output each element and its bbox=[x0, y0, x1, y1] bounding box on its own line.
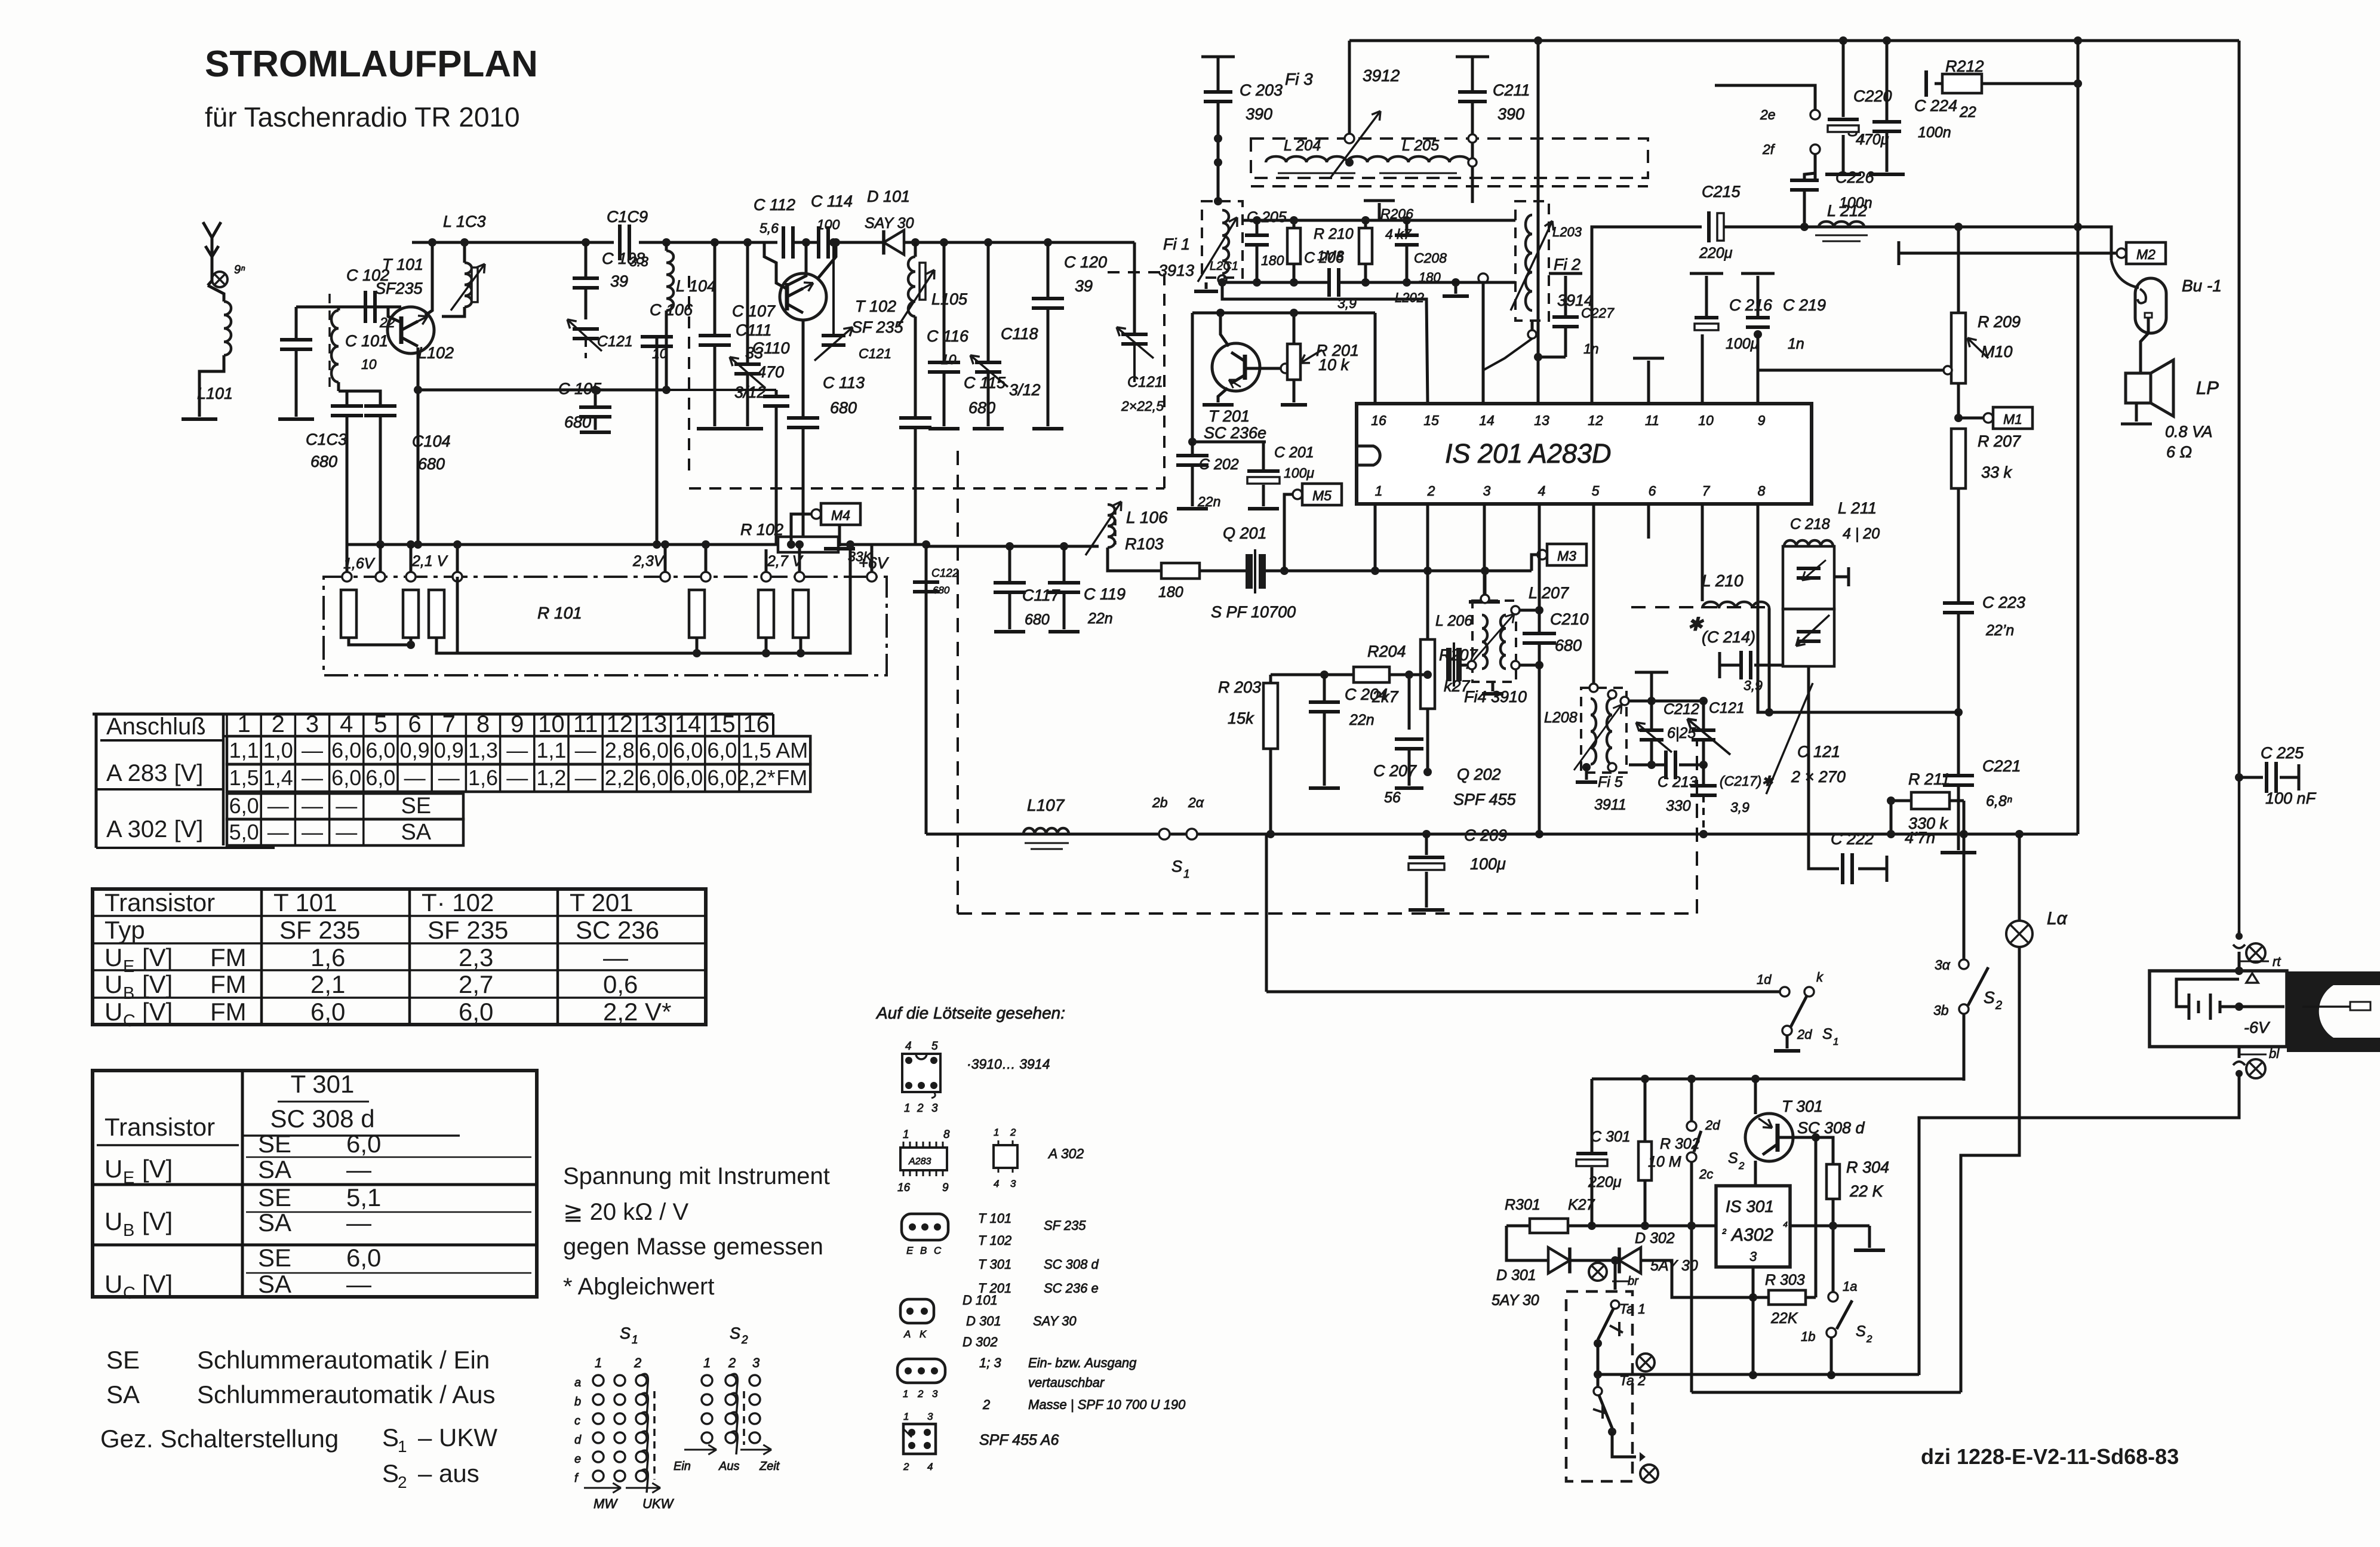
svg-text:C: C bbox=[934, 1245, 942, 1256]
capacitor C201 electrolytic bbox=[1247, 469, 1280, 473]
svg-text:100: 100 bbox=[817, 217, 840, 232]
resistor R212 bbox=[1942, 74, 1982, 93]
svg-text:1: 1 bbox=[994, 1127, 999, 1138]
svg-text:1: 1 bbox=[1375, 483, 1383, 499]
svg-text:U: U bbox=[104, 1207, 122, 1235]
battery connector bl bbox=[2238, 1047, 2241, 1058]
inner filter rails bbox=[1243, 219, 1515, 222]
trimmer C212 bbox=[1650, 701, 1653, 730]
wire top bus bbox=[1349, 39, 2239, 42]
svg-text:SC 236: SC 236 bbox=[576, 916, 659, 944]
svg-text:2: 2 bbox=[1738, 1160, 1745, 1171]
resistor R102 in series bbox=[778, 537, 838, 552]
wire R301 to wireA bbox=[1591, 1167, 1594, 1226]
svg-text:FM: FM bbox=[210, 998, 247, 1026]
trimmer C107 bbox=[746, 242, 749, 364]
svg-text:D 301: D 301 bbox=[966, 1314, 1001, 1328]
svg-text:Masse | SPF 10 700 U 190: Masse | SPF 10 700 U 190 bbox=[1028, 1397, 1186, 1412]
svg-text:C 219: C 219 bbox=[1783, 296, 1826, 314]
svg-text:A 302 [V]: A 302 [V] bbox=[106, 816, 203, 842]
svg-text:S: S bbox=[382, 1423, 399, 1451]
svg-text:FM: FM bbox=[210, 943, 247, 971]
svg-text:2e: 2e bbox=[1760, 107, 1776, 122]
svg-text:Ein- bzw. Ausgang: Ein- bzw. Ausgang bbox=[1028, 1355, 1137, 1370]
svg-text:6,0: 6,0 bbox=[639, 738, 669, 762]
capacitor C215 series electrolytic bbox=[1707, 211, 1711, 242]
svg-text:U: U bbox=[104, 1270, 122, 1298]
svg-text:—: — bbox=[506, 738, 528, 762]
svg-text:1b: 1b bbox=[1801, 1329, 1815, 1344]
svg-text:T 301: T 301 bbox=[978, 1257, 1011, 1272]
diode D101 bbox=[884, 230, 904, 255]
svg-text:d: d bbox=[574, 1434, 582, 1447]
svg-text:L102: L102 bbox=[418, 344, 454, 362]
svg-text:100n: 100n bbox=[1918, 124, 1951, 141]
svg-text:C215: C215 bbox=[1702, 183, 1741, 201]
svg-text:C 206: C 206 bbox=[1304, 250, 1344, 266]
svg-text:Gez. Schalterstellung: Gez. Schalterstellung bbox=[100, 1425, 339, 1453]
svg-text:T 201: T 201 bbox=[570, 888, 634, 916]
wire R301 row bbox=[1506, 1225, 1716, 1228]
wire base node row bbox=[1192, 441, 1266, 444]
svg-text:680: 680 bbox=[830, 399, 857, 417]
svg-text:⁴: ⁴ bbox=[1783, 1220, 1788, 1233]
svg-text:Lα: Lα bbox=[2047, 909, 2068, 928]
coil L106 with adjust arrow bbox=[1108, 505, 1115, 548]
package transistor EBC bottom view bbox=[902, 1214, 948, 1240]
wire to S1 1d bbox=[1266, 991, 1780, 994]
potentiometer R209 bbox=[1957, 227, 1960, 313]
svg-text:D 101: D 101 bbox=[963, 1293, 998, 1308]
svg-text:1a: 1a bbox=[1843, 1279, 1857, 1294]
resistor R207 bbox=[1951, 429, 1966, 488]
svg-text:Typ: Typ bbox=[104, 916, 145, 944]
switch S1 2b 2a bbox=[1159, 829, 1170, 839]
svg-text:4’7n: 4’7n bbox=[1905, 829, 1935, 847]
measurement point M5 bbox=[1293, 490, 1302, 499]
svg-text:SA: SA bbox=[401, 820, 431, 845]
wire R209 wiper from pin9 bbox=[1948, 369, 1951, 372]
resistor R301 bbox=[1530, 1219, 1568, 1233]
svg-text:U: U bbox=[104, 1155, 122, 1183]
svg-text:—: — bbox=[302, 820, 323, 844]
svg-text:3,9: 3,9 bbox=[1730, 799, 1749, 815]
capacitor C220 electrolytic bbox=[1842, 41, 1845, 117]
svg-text:4: 4 bbox=[340, 711, 353, 737]
svg-text:33 k: 33 k bbox=[1981, 463, 2013, 481]
svg-text:1n: 1n bbox=[1788, 336, 1804, 352]
resistor R207b k27 bbox=[1426, 571, 1429, 639]
svg-text:100μ: 100μ bbox=[1726, 336, 1759, 352]
svg-text:C 301: C 301 bbox=[1591, 1128, 1631, 1145]
svg-text:C 207: C 207 bbox=[1373, 762, 1417, 780]
svg-text:2,3V: 2,3V bbox=[632, 553, 665, 570]
capacitor C110 bbox=[775, 390, 778, 396]
diode D302 bbox=[1619, 1247, 1641, 1273]
capacitor C209 electrolytic bbox=[1425, 834, 1428, 855]
svg-text:A283: A283 bbox=[908, 1157, 931, 1167]
Fi4 coils bbox=[1482, 615, 1487, 669]
svg-text:B: B bbox=[123, 1221, 134, 1240]
svg-text:3: 3 bbox=[932, 1388, 938, 1400]
svg-text:R 209: R 209 bbox=[1978, 313, 2021, 331]
wire tuner top bus bbox=[412, 241, 614, 244]
svg-text:6: 6 bbox=[408, 711, 421, 737]
coil L103 with core bbox=[465, 263, 472, 307]
transistor T102 bbox=[780, 273, 826, 320]
capacitor C106 bbox=[656, 337, 659, 390]
capacitor C101 bbox=[295, 307, 298, 340]
svg-text:39: 39 bbox=[1075, 277, 1093, 295]
svg-text:L 205: L 205 bbox=[1402, 137, 1439, 154]
coupling dashed line bbox=[328, 294, 331, 387]
svg-text:22K: 22K bbox=[1770, 1310, 1798, 1327]
crystal Q201 SPF10700 bbox=[1246, 554, 1253, 589]
resistor R206 bbox=[1359, 228, 1372, 264]
capacitor C211 bbox=[1456, 56, 1489, 59]
svg-text:L 211: L 211 bbox=[1838, 499, 1877, 517]
svg-text:SC 308 d: SC 308 d bbox=[1044, 1257, 1099, 1272]
battery cells -6V bbox=[2176, 979, 2239, 1007]
capacitor C206 series bbox=[1327, 268, 1331, 297]
svg-text:—: — bbox=[267, 794, 289, 818]
svg-text:L208: L208 bbox=[1544, 709, 1578, 726]
resistor R303 bbox=[1769, 1290, 1806, 1305]
svg-text:6,0: 6,0 bbox=[639, 765, 669, 790]
package A283 DIP16 top view bbox=[900, 1148, 947, 1170]
svg-text:2,2: 2,2 bbox=[605, 765, 635, 790]
capacitor C203 bbox=[1201, 56, 1235, 59]
svg-text:C 121: C 121 bbox=[1797, 743, 1840, 761]
svg-text:C 113: C 113 bbox=[823, 374, 865, 392]
svg-text:6 Ω: 6 Ω bbox=[2166, 443, 2192, 461]
svg-text:k: k bbox=[1816, 970, 1824, 985]
svg-text:Anschluß: Anschluß bbox=[106, 713, 206, 740]
svg-text:C 108: C 108 bbox=[602, 250, 645, 267]
svg-text:[V]: [V] bbox=[142, 943, 173, 971]
svg-text:R 203: R 203 bbox=[1218, 678, 1261, 696]
svg-text:180: 180 bbox=[1158, 584, 1183, 601]
svg-text:680: 680 bbox=[310, 453, 337, 470]
wire T102 base bbox=[787, 242, 806, 285]
svg-text:bl: bl bbox=[2269, 1046, 2280, 1061]
svg-text:390: 390 bbox=[1246, 105, 1272, 123]
svg-text:11: 11 bbox=[573, 711, 598, 737]
svg-text:SA: SA bbox=[258, 1155, 291, 1183]
svg-text:100μ: 100μ bbox=[1284, 465, 1314, 481]
trimmer arrow Fi3 bbox=[1345, 134, 1354, 143]
svg-text:C 202: C 202 bbox=[1199, 456, 1239, 473]
capacitor C202 bbox=[1191, 442, 1194, 456]
svg-text:B: B bbox=[123, 984, 134, 1003]
svg-text:C121: C121 bbox=[597, 333, 633, 350]
svg-text:4: 4 bbox=[1538, 483, 1546, 499]
svg-text:b: b bbox=[574, 1395, 581, 1408]
svg-text:—: — bbox=[438, 765, 460, 790]
svg-text:3α: 3α bbox=[1935, 957, 1951, 973]
wire T301 base R303 bbox=[1815, 1137, 1818, 1297]
crystal Q202 SPF455 bbox=[1446, 648, 1452, 681]
svg-text:16: 16 bbox=[897, 1182, 911, 1194]
svg-text:10 M: 10 M bbox=[1648, 1154, 1681, 1170]
wire bottom bus tuner bbox=[347, 543, 766, 546]
svg-text:C 223: C 223 bbox=[1982, 593, 2025, 611]
svg-text:SF 235: SF 235 bbox=[279, 916, 360, 944]
svg-text:L 106: L 106 bbox=[1126, 508, 1168, 527]
svg-text:S: S bbox=[620, 1324, 631, 1342]
svg-text:1: 1 bbox=[632, 1334, 638, 1346]
svg-text:9: 9 bbox=[1758, 413, 1766, 428]
wire Fi1 top to C203 col bbox=[1217, 178, 1220, 201]
svg-text:L107: L107 bbox=[1027, 796, 1065, 814]
wire C102 node bbox=[296, 306, 401, 309]
coil L205 bbox=[1367, 156, 1470, 162]
dashed box Ta timer bbox=[1566, 1291, 1632, 1481]
quartz filter Fi4 dashed box bbox=[1472, 601, 1516, 682]
svg-text:4: 4 bbox=[905, 1040, 912, 1053]
wire A collector row bbox=[1192, 312, 1375, 315]
svg-text:22 K: 22 K bbox=[1849, 1182, 1884, 1200]
trimmer C118 bbox=[987, 242, 990, 362]
svg-text:R212: R212 bbox=[1945, 57, 1984, 75]
svg-text:T· 102: T· 102 bbox=[422, 888, 494, 916]
measurement point M2 bbox=[2126, 242, 2166, 264]
svg-text:2: 2 bbox=[1427, 483, 1435, 499]
wire Fi1 to pin15 bbox=[1218, 275, 1226, 284]
dashed box Fi1 bbox=[1202, 201, 1243, 278]
coil L105 with core bbox=[914, 242, 917, 257]
svg-text:1,6: 1,6 bbox=[310, 943, 345, 971]
svg-text:—: — bbox=[267, 820, 289, 844]
svg-text:10: 10 bbox=[538, 711, 565, 737]
wire top bus to 3912 bbox=[1348, 41, 1351, 134]
svg-text:STROMLAUFPLAN: STROMLAUFPLAN bbox=[205, 44, 538, 85]
wire Fi4 to pin4 col bbox=[1520, 609, 1539, 612]
svg-text:R 207: R 207 bbox=[1978, 432, 2021, 450]
svg-text:14: 14 bbox=[675, 711, 702, 737]
svg-text:T 301: T 301 bbox=[291, 1070, 355, 1098]
svg-text:22n: 22n bbox=[1197, 494, 1220, 509]
svg-text:3: 3 bbox=[927, 1411, 933, 1422]
svg-text:1,2: 1,2 bbox=[536, 765, 566, 790]
svg-text:S: S bbox=[1984, 988, 1995, 1007]
capacitor C216 electrolytic bbox=[1695, 316, 1718, 319]
svg-text:15: 15 bbox=[1423, 413, 1439, 428]
svg-text:C210: C210 bbox=[1550, 610, 1589, 628]
svg-text:22n: 22n bbox=[1087, 610, 1113, 627]
svg-text:IS 201 A283D: IS 201 A283D bbox=[1445, 438, 1612, 469]
svg-text:+6V: +6V bbox=[859, 554, 890, 572]
svg-text:C121: C121 bbox=[859, 346, 891, 361]
wire outer bottom bbox=[1692, 1391, 1961, 1394]
svg-text:L101: L101 bbox=[197, 385, 233, 402]
svg-text:4: 4 bbox=[927, 1461, 933, 1472]
svg-text:15: 15 bbox=[709, 711, 736, 737]
svg-text:6,0: 6,0 bbox=[365, 765, 395, 790]
svg-text:8: 8 bbox=[943, 1128, 950, 1141]
svg-text:1: 1 bbox=[903, 1388, 908, 1400]
svg-text:LP: LP bbox=[2196, 377, 2219, 398]
svg-text:1: 1 bbox=[904, 1102, 911, 1115]
svg-text:C 213: C 213 bbox=[1658, 774, 1698, 791]
wire T101 collector bbox=[425, 242, 432, 315]
capacitor C114 series bbox=[817, 226, 820, 259]
svg-text:16: 16 bbox=[1371, 413, 1386, 428]
wire +6V drop bbox=[871, 545, 874, 572]
package IF transformer 3910-3914 bbox=[902, 1054, 940, 1092]
ground Fi5 bbox=[1585, 767, 1588, 780]
svg-text:5,0: 5,0 bbox=[229, 820, 259, 844]
capacitor C119 bbox=[1063, 546, 1066, 583]
capacitor C204 bbox=[1320, 671, 1329, 679]
diode D301 bbox=[1548, 1247, 1570, 1273]
svg-text:C 107: C 107 bbox=[732, 302, 776, 320]
capacitor C115 bbox=[914, 390, 917, 418]
svg-text:AM: AM bbox=[776, 738, 808, 762]
wire pin9 row to R209 bbox=[1757, 334, 1760, 370]
wire C110 branch bbox=[666, 389, 776, 391]
svg-text:R 304: R 304 bbox=[1846, 1158, 1889, 1176]
trimmer C121 middle gang bbox=[832, 242, 835, 336]
svg-text:S: S bbox=[1856, 1323, 1866, 1340]
coil L210 bbox=[1701, 504, 1704, 601]
connector plug black bbox=[2287, 971, 2380, 1052]
svg-text:Ein: Ein bbox=[674, 1460, 691, 1473]
svg-text:Fi 3: Fi 3 bbox=[1285, 70, 1313, 88]
wire Fi5 secondary top bbox=[1629, 700, 1703, 703]
transistor T301 bbox=[1745, 1114, 1793, 1161]
svg-text:22: 22 bbox=[1959, 104, 1976, 121]
svg-text:M2: M2 bbox=[2136, 247, 2155, 262]
svg-text:16: 16 bbox=[743, 711, 770, 737]
wire riser to solder side bbox=[1265, 834, 1268, 992]
svg-text:9: 9 bbox=[511, 711, 524, 737]
capacitor C104 bbox=[347, 391, 380, 406]
svg-text:5: 5 bbox=[374, 711, 387, 737]
svg-text:C121: C121 bbox=[1709, 700, 1745, 716]
wire T101 emitter bbox=[417, 347, 420, 545]
wire Fi2 bottom contact bbox=[1531, 321, 1534, 331]
svg-text:14: 14 bbox=[1479, 413, 1495, 428]
voltage rail contacts bbox=[342, 572, 352, 582]
svg-text:—: — bbox=[506, 765, 528, 790]
svg-text:220μ: 220μ bbox=[1699, 245, 1733, 262]
ground Fi1 bottom bbox=[1205, 282, 1208, 289]
ground C111 bbox=[697, 427, 733, 430]
svg-text:3,9: 3,9 bbox=[1744, 678, 1763, 693]
svg-text:C 218: C 218 bbox=[1790, 516, 1830, 533]
svg-text:SE: SE bbox=[258, 1130, 291, 1158]
svg-text:2: 2 bbox=[982, 1397, 990, 1412]
coil L208 Fi5 dashed box bbox=[1581, 688, 1626, 773]
svg-text:1: 1 bbox=[903, 1411, 909, 1422]
svg-text:1,0: 1,0 bbox=[263, 738, 293, 762]
svg-text:3: 3 bbox=[1483, 483, 1491, 499]
svg-text:[V]: [V] bbox=[142, 1155, 173, 1183]
capacitor C224 bbox=[1886, 41, 1889, 122]
svg-text:A 302: A 302 bbox=[1047, 1146, 1084, 1161]
svg-text:—: — bbox=[346, 1270, 371, 1298]
svg-text:470μ: 470μ bbox=[1856, 131, 1889, 148]
svg-text:C 106: C 106 bbox=[650, 301, 693, 319]
svg-text:2,2*: 2,2* bbox=[737, 765, 776, 790]
capacitor C116 bbox=[943, 242, 946, 362]
svg-text:T 101: T 101 bbox=[273, 888, 337, 916]
svg-text:1: 1 bbox=[595, 1355, 602, 1370]
speaker LP bbox=[2126, 373, 2151, 403]
svg-text:15k: 15k bbox=[1228, 709, 1254, 727]
ground Fi4 bbox=[1492, 682, 1495, 691]
svg-text:T 101: T 101 bbox=[978, 1211, 1011, 1226]
svg-text:330: 330 bbox=[1666, 798, 1691, 814]
wire output row bbox=[1592, 1078, 1964, 1081]
package diode AK bottom view bbox=[900, 1299, 934, 1323]
svg-text:680: 680 bbox=[1555, 636, 1582, 654]
svg-text:0,9: 0,9 bbox=[434, 738, 464, 762]
svg-text:C 225: C 225 bbox=[2261, 744, 2304, 762]
svg-text:6,0: 6,0 bbox=[673, 765, 703, 790]
table transistor T301 bbox=[93, 1071, 537, 1297]
svg-text:6,0: 6,0 bbox=[346, 1130, 381, 1158]
svg-text:C: C bbox=[123, 1284, 136, 1303]
svg-text:1,4: 1,4 bbox=[263, 765, 293, 790]
svg-text:C 205: C 205 bbox=[1247, 209, 1287, 226]
svg-text:T 201: T 201 bbox=[1209, 407, 1250, 425]
switch S2 3a 3b bbox=[1963, 834, 1966, 959]
svg-text:2d: 2d bbox=[1797, 1027, 1812, 1042]
svg-text:680: 680 bbox=[418, 455, 445, 473]
ground L101 bbox=[182, 417, 217, 421]
wire L212 to jack bbox=[2078, 227, 2111, 260]
capacitor C113 bbox=[787, 416, 819, 420]
wire to lamp bbox=[2015, 830, 2024, 838]
svg-text:10: 10 bbox=[361, 356, 377, 372]
svg-text:M10: M10 bbox=[1981, 343, 2013, 361]
svg-text:SA: SA bbox=[258, 1270, 291, 1298]
svg-text:S PF 10700: S PF 10700 bbox=[1211, 603, 1296, 621]
capacitor C301 electrolytic bbox=[1576, 1152, 1607, 1155]
battery box bbox=[2150, 971, 2287, 1047]
svg-text:vertauschbar: vertauschbar bbox=[1028, 1375, 1105, 1390]
svg-text:2,1: 2,1 bbox=[310, 970, 345, 998]
svg-text:M1: M1 bbox=[2003, 411, 2022, 427]
svg-text:4: 4 bbox=[994, 1178, 999, 1189]
svg-text:—: — bbox=[346, 1155, 371, 1183]
svg-text:C117: C117 bbox=[1022, 586, 1060, 604]
capacitor C122 decoupling bbox=[925, 545, 928, 834]
svg-text:D 301: D 301 bbox=[1496, 1267, 1536, 1284]
svg-text:-6V: -6V bbox=[2244, 1019, 2271, 1037]
svg-text:220μ: 220μ bbox=[1588, 1174, 1622, 1191]
capacitor C120 bbox=[1047, 242, 1050, 299]
svg-text:C 112: C 112 bbox=[754, 196, 795, 214]
svg-text:56: 56 bbox=[1384, 789, 1401, 806]
svg-text:S: S bbox=[382, 1459, 399, 1487]
svg-text:5AY 30: 5AY 30 bbox=[1492, 1292, 1539, 1309]
svg-text:L2C1: L2C1 bbox=[1210, 260, 1238, 273]
coil L204 bbox=[1266, 156, 1367, 162]
wire C106 to bottom bbox=[656, 346, 659, 545]
svg-text:1,6: 1,6 bbox=[468, 765, 498, 790]
trimmer C121b bbox=[1133, 242, 1136, 334]
svg-text:3911: 3911 bbox=[1594, 796, 1626, 813]
capacitor C214 series bbox=[1720, 664, 1741, 667]
table Anschluss A283/A302 pin voltages bbox=[95, 714, 98, 848]
svg-text:2,3: 2,3 bbox=[459, 943, 493, 971]
ground C101 bbox=[278, 417, 314, 421]
svg-text:Schlummerautomatik / Ein: Schlummerautomatik / Ein bbox=[197, 1346, 490, 1374]
resistor R204 bbox=[1354, 667, 1389, 682]
